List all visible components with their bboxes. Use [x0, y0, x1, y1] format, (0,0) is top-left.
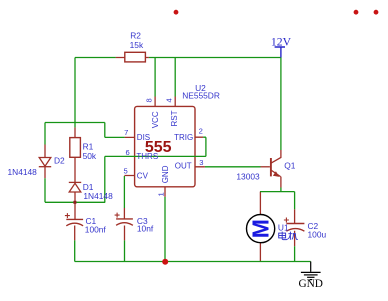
svg-text:TRIG: TRIG [174, 133, 193, 142]
svg-text:100u: 100u [308, 229, 327, 239]
svg-text:2: 2 [199, 126, 203, 135]
svg-text:13003: 13003 [236, 172, 260, 182]
svg-text:R2: R2 [130, 31, 141, 41]
svg-text:3: 3 [199, 158, 203, 167]
svg-text:Q1: Q1 [284, 160, 296, 170]
svg-text:OUT: OUT [175, 162, 192, 171]
svg-text:6: 6 [125, 148, 129, 157]
svg-text:555: 555 [145, 139, 172, 156]
svg-text:50k: 50k [83, 151, 97, 161]
svg-text:4: 4 [164, 98, 173, 102]
svg-text:1N4148: 1N4148 [8, 167, 38, 177]
svg-text:NE555DR: NE555DR [182, 91, 220, 101]
svg-text:5: 5 [123, 166, 127, 175]
svg-text:8: 8 [144, 98, 153, 102]
svg-text:RST: RST [170, 110, 179, 126]
svg-text:7: 7 [124, 128, 128, 137]
svg-text:GND: GND [298, 278, 322, 290]
svg-text:U1: U1 [278, 222, 289, 232]
svg-text:M: M [248, 219, 274, 238]
svg-text:12V: 12V [271, 35, 292, 48]
svg-text:10nf: 10nf [137, 223, 154, 233]
svg-text:GND: GND [161, 165, 170, 183]
svg-text:100nf: 100nf [85, 224, 107, 234]
svg-text:CV: CV [137, 171, 149, 180]
svg-text:D2: D2 [54, 156, 65, 166]
svg-text:15k: 15k [130, 40, 144, 50]
svg-text:1: 1 [156, 192, 165, 196]
svg-text:VCC: VCC [151, 111, 160, 128]
svg-text:1N4148: 1N4148 [83, 191, 113, 201]
